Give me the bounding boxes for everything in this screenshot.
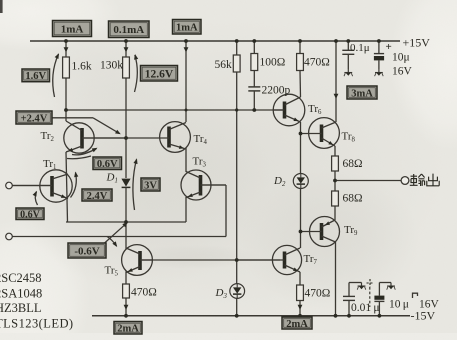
svg-text:68Ω: 68Ω bbox=[343, 193, 363, 205]
svg-text:0.1μ: 0.1μ bbox=[350, 42, 370, 54]
svg-text:1.6k: 1.6k bbox=[72, 61, 92, 73]
svg-text:10 μ: 10 μ bbox=[389, 299, 409, 311]
svg-text:0.6V: 0.6V bbox=[97, 159, 118, 170]
svg-text:100Ω: 100Ω bbox=[260, 57, 286, 69]
svg-text:2mA: 2mA bbox=[286, 319, 308, 330]
svg-text:2SC2458: 2SC2458 bbox=[0, 271, 42, 285]
svg-text:-15V: -15V bbox=[411, 309, 436, 323]
svg-text:2mA: 2mA bbox=[117, 324, 139, 335]
svg-text:470Ω: 470Ω bbox=[131, 287, 157, 299]
svg-text:1mA: 1mA bbox=[176, 23, 198, 34]
svg-text:0.1mA: 0.1mA bbox=[113, 24, 144, 36]
svg-text:10μ: 10μ bbox=[392, 52, 410, 64]
svg-text:-0.6V: -0.6V bbox=[74, 245, 99, 257]
svg-text:12.6V: 12.6V bbox=[145, 68, 174, 80]
svg-text:470Ω: 470Ω bbox=[305, 288, 331, 300]
svg-text:2200p: 2200p bbox=[262, 85, 291, 97]
svg-text:HZ3BLL: HZ3BLL bbox=[0, 301, 42, 315]
svg-text:56k: 56k bbox=[215, 59, 233, 71]
svg-text:1mA: 1mA bbox=[61, 23, 84, 35]
svg-text:+: + bbox=[386, 41, 392, 53]
svg-text:0.01 μ: 0.01 μ bbox=[351, 302, 380, 314]
svg-text:68Ω: 68Ω bbox=[343, 158, 363, 170]
svg-text:3mA: 3mA bbox=[351, 88, 373, 99]
svg-text:1.6V: 1.6V bbox=[25, 71, 46, 82]
svg-text:TLS123(LED): TLS123(LED) bbox=[0, 317, 74, 331]
svg-text:+2.4V: +2.4V bbox=[21, 113, 48, 124]
svg-text:0.6V: 0.6V bbox=[20, 209, 41, 220]
svg-text:2.4V: 2.4V bbox=[87, 191, 108, 202]
svg-text:16V: 16V bbox=[392, 66, 413, 78]
svg-text:2SA1048: 2SA1048 bbox=[0, 287, 42, 301]
svg-text:130k: 130k bbox=[100, 60, 123, 72]
svg-text:470Ω: 470Ω bbox=[304, 57, 330, 69]
svg-text:+15V: +15V bbox=[403, 36, 431, 50]
svg-text:3V: 3V bbox=[144, 180, 157, 191]
